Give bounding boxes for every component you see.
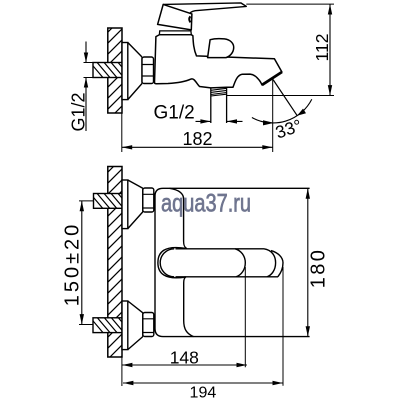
svg-text:G1/2: G1/2 xyxy=(154,103,195,124)
svg-text:182: 182 xyxy=(182,129,212,149)
svg-text:148: 148 xyxy=(170,348,199,368)
svg-text:G1/2: G1/2 xyxy=(69,92,89,131)
svg-text:180: 180 xyxy=(308,248,330,289)
svg-text:aqua37.ru: aqua37.ru xyxy=(161,189,251,217)
svg-text:112: 112 xyxy=(312,34,332,62)
svg-text:150±20: 150±20 xyxy=(62,222,84,307)
svg-text:194: 194 xyxy=(190,385,217,400)
